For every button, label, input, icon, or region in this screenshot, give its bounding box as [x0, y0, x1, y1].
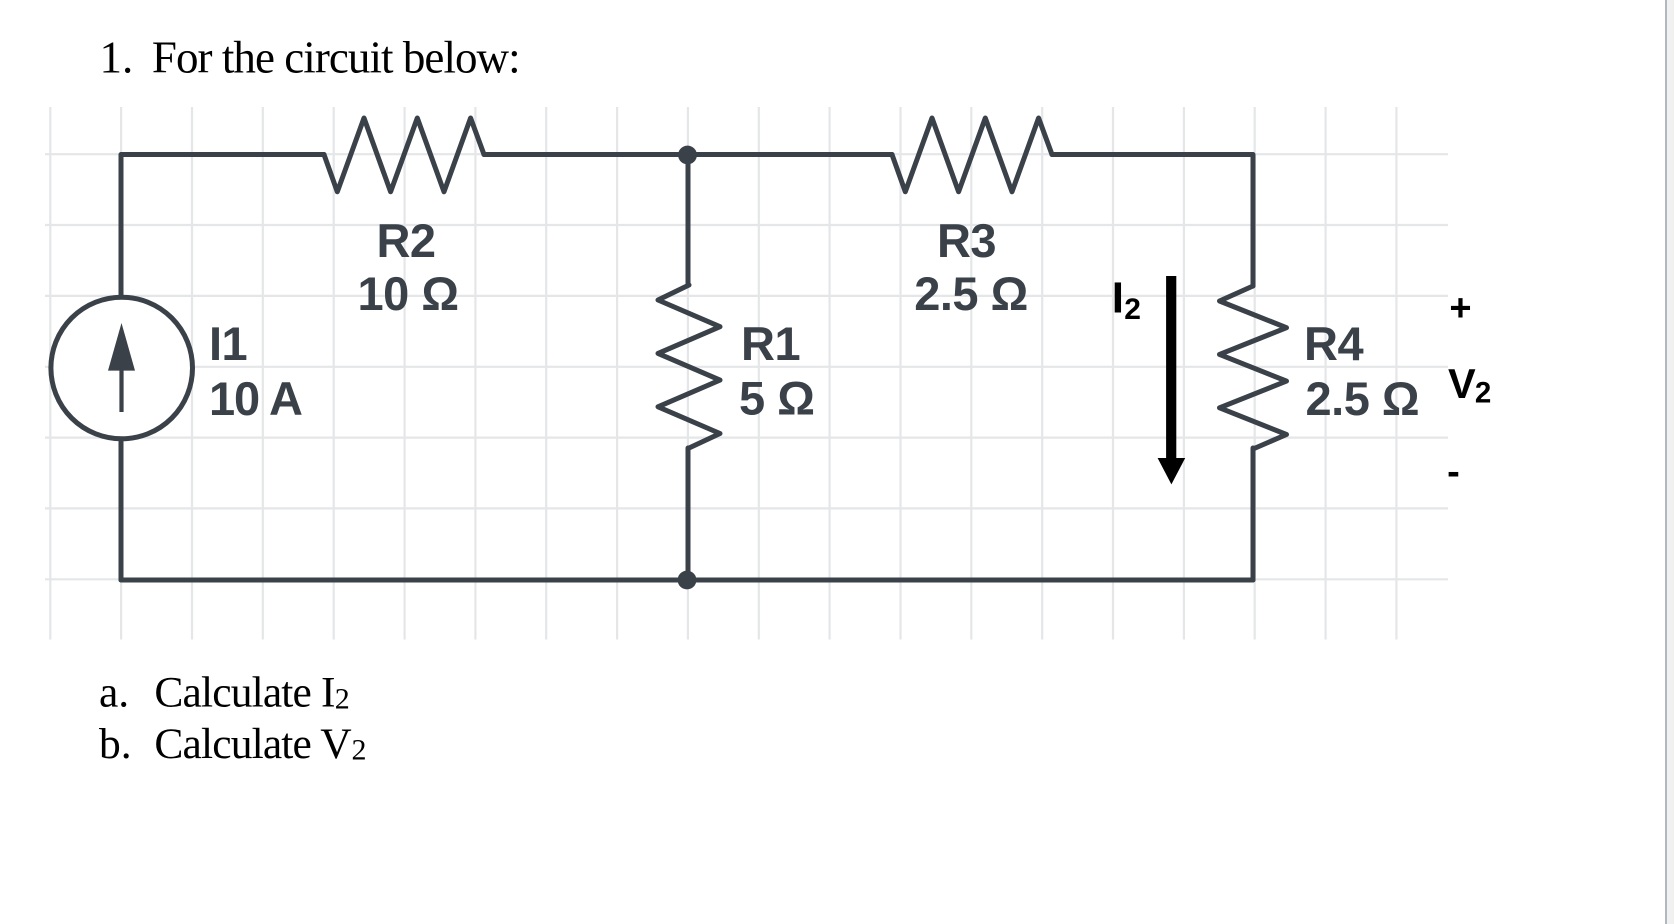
svg-text:2: 2 [352, 734, 367, 767]
svg-text:R3: R3 [937, 214, 996, 267]
svg-text:V: V [1448, 360, 1476, 407]
svg-text:Calculate I: Calculate I [154, 669, 334, 717]
svg-text:I1: I1 [209, 317, 247, 370]
I2 current arrow [1158, 276, 1186, 484]
svg-text:10 A: 10 A [209, 372, 302, 425]
svg-text:1.: 1. [100, 33, 134, 83]
svg-text:5 Ω: 5 Ω [739, 372, 814, 425]
wire left-bottom segment [119, 439, 124, 580]
svg-text:I: I [1112, 273, 1124, 322]
wire top-left segment [121, 155, 324, 298]
current source I1 arrow [108, 323, 135, 412]
right edge strip [1667, 0, 1674, 924]
wire middle top [686, 155, 691, 286]
svg-text:a.: a. [99, 669, 129, 717]
svg-text:Calculate V: Calculate V [154, 720, 351, 768]
right edge scrollbar line [1665, 0, 1668, 924]
wire top-right segment [1052, 155, 1253, 287]
wire right-bottom segment [1251, 448, 1256, 580]
node A (top junction) [678, 146, 697, 165]
svg-text:2.5 Ω: 2.5 Ω [914, 267, 1028, 320]
svg-text:R4: R4 [1304, 317, 1363, 370]
svg-text:-: - [1447, 451, 1460, 493]
resistor R2 [324, 118, 484, 192]
svg-text:2.5 Ω: 2.5 Ω [1306, 372, 1420, 425]
wire middle bottom [686, 448, 691, 580]
svg-text:10 Ω: 10 Ω [357, 267, 458, 320]
resistor R3 [892, 118, 1052, 192]
svg-text:2: 2 [1475, 377, 1491, 410]
svg-text:2: 2 [1124, 293, 1141, 326]
wire top-middle segment [484, 152, 892, 157]
svg-text:2: 2 [335, 683, 350, 716]
svg-text:R2: R2 [376, 214, 435, 267]
svg-text:b.: b. [99, 720, 132, 768]
resistor R4 [1220, 286, 1287, 449]
svg-text:+: + [1449, 288, 1471, 330]
current source I1 body [51, 297, 193, 439]
wire bottom segment [121, 578, 1253, 583]
resistor R1 [658, 285, 720, 448]
node B (bottom junction) [678, 571, 697, 590]
svg-text:R1: R1 [741, 317, 800, 370]
svg-text:For the circuit below:: For the circuit below: [152, 33, 520, 83]
